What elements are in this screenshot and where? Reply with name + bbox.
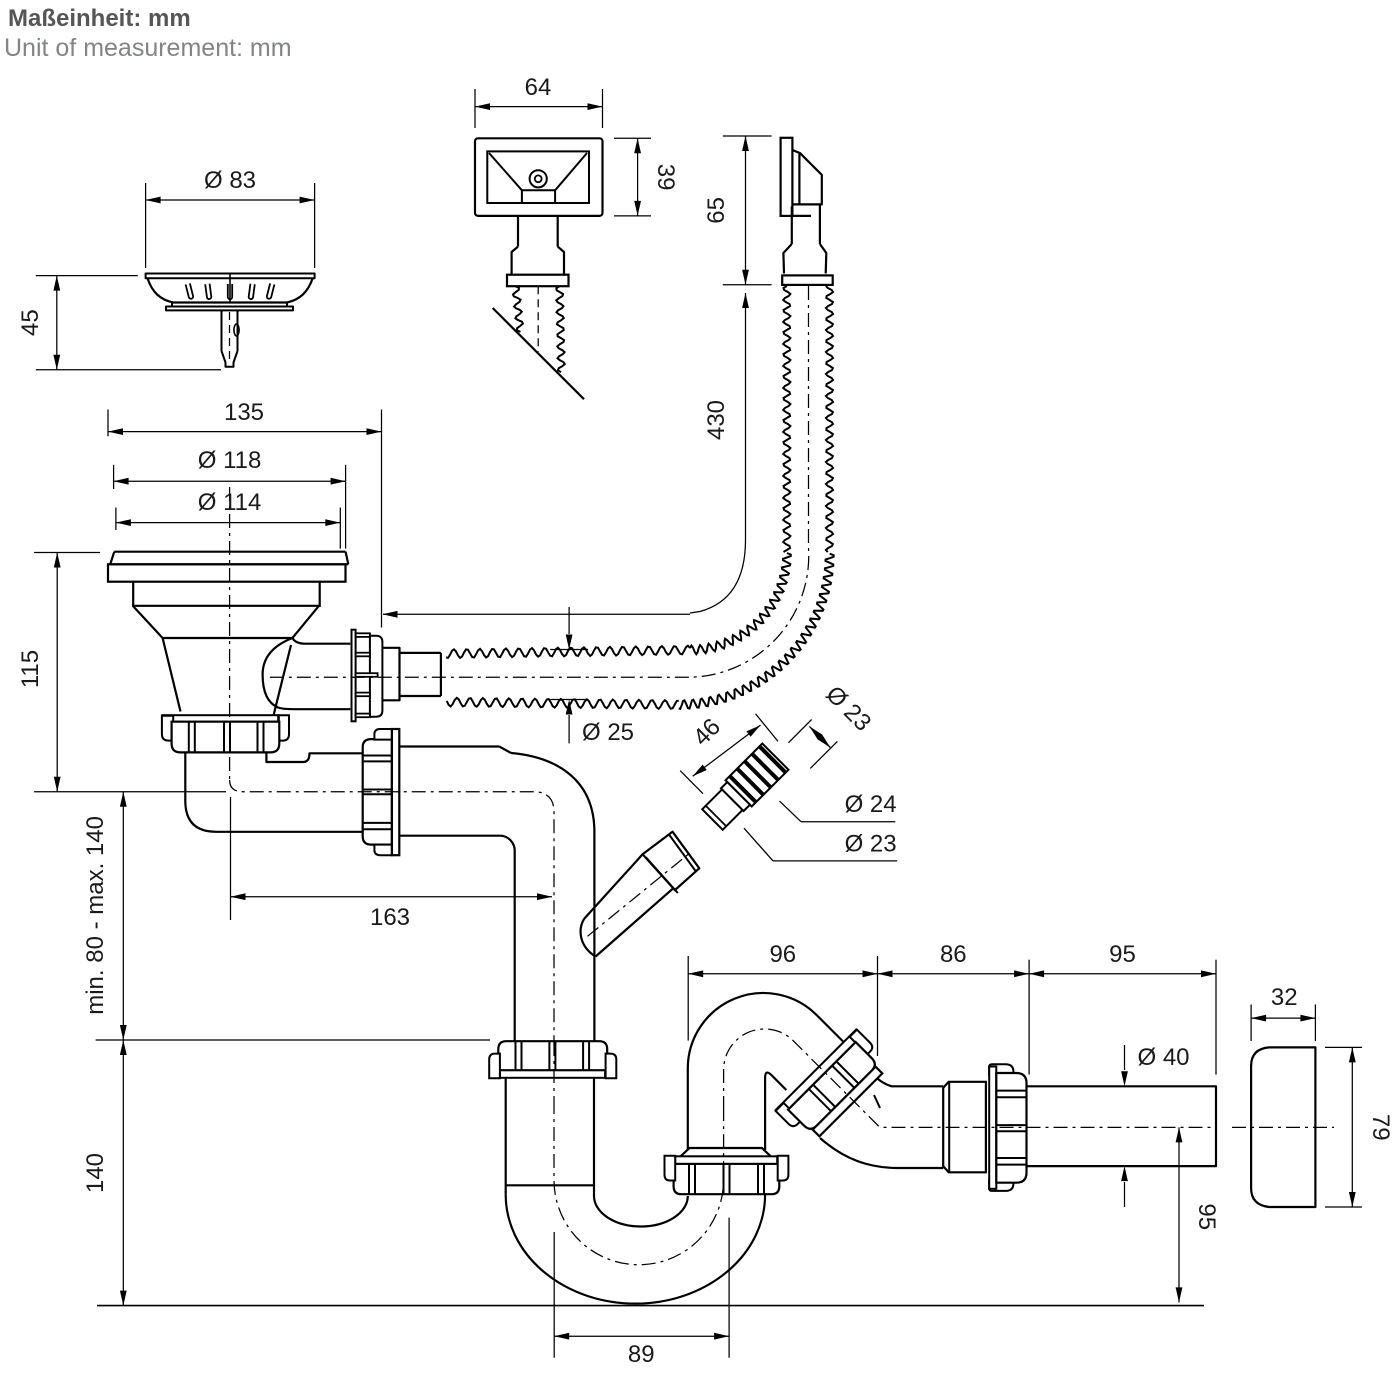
dim 64 ext [474, 89, 476, 128]
dim min80max140 [122, 792, 124, 1040]
hose outer horizontal [447, 698, 679, 709]
dim 39 [637, 138, 639, 216]
offset pipe elbow [501, 753, 595, 1041]
outlet pipe [1027, 1086, 1217, 1166]
sink wall diagonal [493, 308, 584, 399]
drain elbow bulge [263, 638, 351, 709]
svg-text:Maßeinheit: mm: Maßeinheit: mm [8, 5, 191, 32]
svg-text:95: 95 [1109, 941, 1136, 968]
dim 45 ext [36, 275, 138, 277]
overflow corrugated right [556, 286, 565, 372]
svg-text:Ø 40: Ø 40 [1137, 1044, 1189, 1071]
level line upper [34, 791, 226, 793]
svg-text:430: 430 [703, 400, 730, 440]
dim Ø25 bottom arrow [568, 715, 570, 743]
hose outer bend [679, 554, 834, 709]
leader Ø23 low [744, 828, 773, 861]
svg-text:Ø 114: Ø 114 [198, 489, 262, 516]
dim Ø118 [114, 480, 346, 482]
drain tailpipe [185, 752, 362, 831]
outlet union nut [943, 1082, 986, 1173]
dim Ø114 [116, 522, 340, 524]
svg-text:140: 140 [82, 1153, 109, 1193]
trap top bend centerline [724, 1029, 1216, 1127]
drain outlet tube top [292, 638, 350, 644]
dim Ø83 [146, 199, 315, 201]
overflow housing diagonals [489, 153, 522, 190]
dim 140 [122, 1040, 124, 1306]
overflow screw [530, 170, 547, 187]
trap U centerline [554, 1100, 724, 1265]
dim 115 [56, 553, 58, 792]
hose centerline [265, 286, 809, 677]
dim 96 [688, 973, 877, 975]
svg-text:163: 163 [370, 904, 410, 931]
dim 46 [693, 725, 761, 776]
drain flange plate [108, 564, 346, 581]
strainer rim [146, 274, 315, 279]
svg-text:min. 80 - max. 140: min. 80 - max. 140 [82, 816, 109, 1015]
offset large pipe [399, 747, 500, 836]
trap U-bend outer [506, 1195, 765, 1304]
svg-text:86: 86 [940, 941, 967, 968]
dim 96 ext [687, 956, 689, 1041]
branch pipe lower edge [596, 889, 673, 957]
svg-text:39: 39 [652, 164, 679, 191]
drain outlet castellated collar [370, 636, 383, 717]
connector cone [783, 244, 826, 274]
dim 86 [878, 973, 1030, 975]
dim 89 [554, 1335, 729, 1337]
svg-text:32: 32 [1271, 984, 1298, 1011]
trap body right branch [688, 1069, 765, 1151]
trap U-bend inner [594, 1196, 688, 1226]
wall flange [1251, 1047, 1315, 1207]
drain centerline [229, 487, 231, 782]
strainer stem centerline [229, 312, 231, 363]
dim Ø114 ext [115, 508, 117, 531]
svg-text:79: 79 [1367, 1114, 1392, 1141]
dim 64 [475, 106, 603, 108]
trap 45 outlet pipe [820, 1072, 943, 1168]
dim Ø40 arrows [1124, 1045, 1126, 1070]
ground line [97, 1305, 1204, 1307]
dim 32 [1251, 1017, 1315, 1019]
svg-text:Ø 25: Ø 25 [582, 719, 634, 746]
wall flange centerline [1232, 1126, 1334, 1128]
branch pipe upper edge [584, 854, 642, 918]
drain rim [110, 552, 348, 565]
svg-text:Ø 24: Ø 24 [845, 791, 897, 818]
dim 65 ext [723, 135, 772, 137]
dim Ø83 ext [145, 183, 147, 268]
dim 79 ext [1325, 1046, 1362, 1048]
offset pipe centerline [230, 780, 554, 1042]
trap body male flange [680, 1148, 772, 1157]
trap outlet union nut [674, 1164, 780, 1194]
ribbed hose adapter [699, 744, 788, 833]
trap 45deg union nut [775, 1029, 891, 1145]
dim 115 ext top [34, 552, 100, 554]
drain lock nut [162, 715, 278, 722]
dim 163 [231, 896, 553, 898]
overflow flange [507, 275, 569, 287]
overflow cone [512, 247, 564, 275]
branch sleeve [643, 832, 700, 890]
strainer stem pin [234, 324, 239, 336]
svg-text:64: 64 [525, 74, 552, 101]
svg-text:65: 65 [703, 197, 730, 224]
branch pipe end arc [581, 919, 596, 957]
dim 89 ext [553, 1232, 555, 1358]
drain upper body [133, 582, 320, 607]
dim 65 [745, 136, 747, 285]
dim Ø23 NE ext [789, 720, 812, 743]
dim 95 top [1029, 973, 1216, 975]
svg-text:Unit of measurement: mm: Unit of measurement: mm [4, 34, 292, 62]
dim Ø23 NE [809, 726, 830, 747]
hose inner vertical [783, 286, 790, 552]
dim 135 ext [107, 410, 109, 437]
connector neck [792, 204, 820, 244]
level line lower [96, 1039, 490, 1041]
trap top bend inner [765, 1073, 786, 1090]
hose inner bend [690, 553, 791, 654]
descending pipe centerline [553, 1042, 555, 1100]
overflow housing inner [487, 151, 589, 203]
dim 95 ext [1215, 960, 1217, 1075]
dim 135 [108, 431, 382, 433]
connector wall plate [781, 138, 793, 216]
svg-text:96: 96 [769, 941, 796, 968]
dim 95 vertical [1178, 1127, 1180, 1302]
svg-text:Ø 118: Ø 118 [198, 447, 262, 474]
drain cone [133, 606, 318, 714]
svg-text:115: 115 [17, 650, 44, 688]
strainer tip [222, 351, 238, 367]
svg-text:Ø 83: Ø 83 [204, 167, 256, 194]
overflow hose dashes [537, 286, 539, 352]
svg-text:95: 95 [1193, 1203, 1220, 1230]
drain outlet coupling [382, 648, 441, 701]
offset pipe elbow joint [499, 747, 511, 754]
strainer center split [229, 274, 231, 303]
dim 86 ext [1028, 960, 1030, 1075]
branch centerline [588, 851, 693, 936]
trap inlet sleeve [506, 1078, 594, 1196]
hose inner horizontal [446, 646, 690, 658]
dim 46 ext [680, 771, 703, 794]
strainer stem [222, 310, 238, 351]
dim 163 ext left [230, 797, 232, 920]
strainer slots [186, 283, 194, 299]
svg-text:89: 89 [628, 1341, 655, 1368]
leader Ø24 [780, 801, 802, 822]
strainer bottom flange [166, 303, 293, 311]
connector angled body [792, 150, 821, 204]
connector flange [782, 275, 833, 285]
overflow neck [518, 216, 558, 247]
overflow housing outer [475, 138, 603, 216]
dim 39 ext [614, 137, 651, 139]
trap top bend outer [688, 993, 844, 1069]
offset pipe union nut [363, 739, 392, 845]
svg-text:45: 45 [17, 309, 44, 336]
dim 430 [690, 293, 746, 613]
svg-text:135: 135 [224, 399, 264, 426]
overflow corrugated left [513, 286, 523, 332]
svg-text:Ø 23: Ø 23 [845, 831, 897, 858]
overflow clamp bracket [522, 190, 555, 203]
hose outer vertical [826, 286, 833, 552]
dim 32 ext [1250, 1005, 1252, 1042]
trap inlet union nut [498, 1041, 607, 1070]
dim Ø118 ext [113, 465, 115, 489]
dim 45 [56, 276, 58, 370]
dim 79 [1351, 1047, 1353, 1207]
strainer bowl [148, 278, 313, 302]
dim Ø25 top arrow [568, 607, 570, 634]
